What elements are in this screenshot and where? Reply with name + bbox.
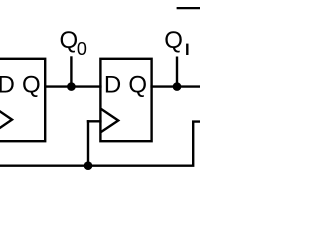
wire Q1 stem xyxy=(176,57,178,87)
wire clock stem up from bottom wire xyxy=(87,120,89,166)
U2 clock input triangle xyxy=(100,109,118,133)
flip-flop U2 (right D flip-flop) xyxy=(100,59,151,141)
node Q1 junction dot xyxy=(173,82,182,91)
flip-flop U1 (left D flip-flop, partially cut at left edge) xyxy=(0,59,45,141)
svg-text:Q: Q xyxy=(164,27,183,54)
node Q0 junction dot xyxy=(67,82,76,91)
svg-text:D: D xyxy=(104,71,121,98)
wire top-right segment xyxy=(177,7,200,9)
U1 clock input triangle xyxy=(0,107,12,132)
wire Q0 stem xyxy=(70,56,72,86)
wire U2.Q to right edge xyxy=(150,85,200,87)
svg-text:D: D xyxy=(0,71,15,98)
svg-text:0: 0 xyxy=(77,39,87,59)
svg-text:Q: Q xyxy=(22,71,41,98)
wire clock stub into U2 xyxy=(87,120,102,122)
svg-text:Q: Q xyxy=(60,27,79,54)
node clock junction dot xyxy=(84,161,93,170)
svg-text:Q: Q xyxy=(128,71,147,98)
wire clock feedback: from right edge down and along bottom xyxy=(0,122,200,166)
wire U1.Q to U2.D xyxy=(44,85,102,87)
